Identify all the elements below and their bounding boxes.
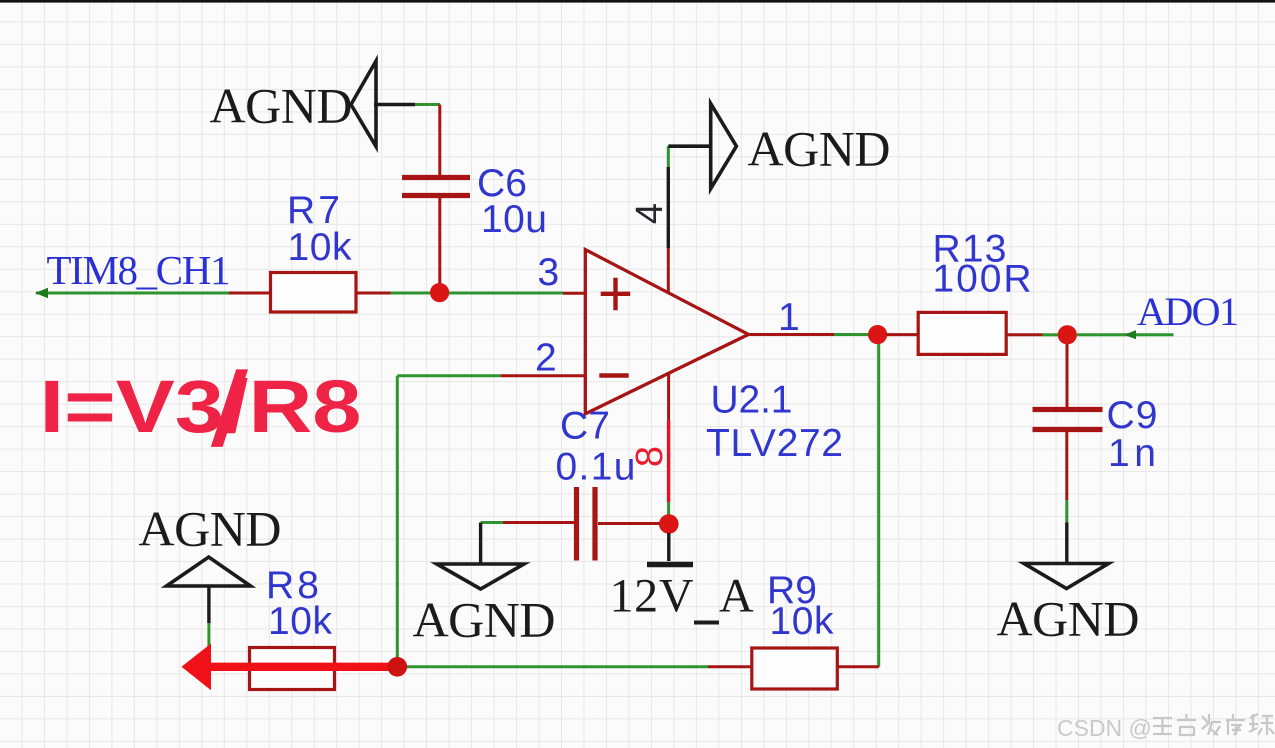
svg-text:10u: 10u	[481, 198, 547, 241]
svg-text:3: 3	[538, 251, 560, 294]
wire into R9	[708, 665, 752, 668]
svg-text:TIM8_CH1: TIM8_CH1	[47, 247, 231, 293]
svg-text:C7: C7	[560, 405, 610, 448]
power port 12V_A	[647, 533, 693, 565]
svg-text:AGND: AGND	[748, 121, 891, 177]
wire C6 to node A	[438, 198, 441, 288]
wire R8	[209, 665, 397, 668]
power port AGND (pin 4)	[668, 104, 736, 189]
watermark CSDN	[1057, 714, 1274, 741]
svg-text:AGND: AGND	[413, 592, 556, 648]
wire R9 to output branch	[837, 665, 879, 668]
junction feedback node	[388, 657, 408, 677]
resistor R8	[250, 648, 335, 690]
capacitor C9	[1033, 410, 1103, 430]
svg-text:TLV272: TLV272	[706, 422, 843, 465]
wire output to R13	[886, 333, 918, 336]
wire feedback bottom	[397, 665, 708, 668]
annotation arrow (current direction)	[182, 644, 398, 691]
svg-text:2: 2	[535, 337, 557, 380]
pin 8 wire	[667, 374, 670, 515]
svg-text:I=V3/R8: I=V3/R8	[40, 365, 362, 448]
svg-text:AGND: AGND	[210, 78, 353, 134]
wire into R7	[229, 292, 271, 295]
capacitor C7	[577, 487, 596, 561]
junction 12V_A node	[659, 514, 679, 534]
pin 3 stub	[563, 292, 585, 295]
svg-text:10k: 10k	[268, 600, 333, 643]
svg-text:C9: C9	[1107, 394, 1158, 437]
wire C7 left to AGND	[481, 523, 574, 565]
pin 1 wire	[749, 333, 870, 336]
wire R7 to node A	[356, 292, 431, 295]
op-amp U2.1	[585, 250, 748, 414]
svg-text:10k: 10k	[770, 600, 835, 643]
wire output down	[877, 344, 880, 667]
wire AGND to C6	[415, 105, 440, 176]
wire TIM8_CH1	[35, 288, 229, 299]
svg-text:AGND: AGND	[997, 591, 1140, 647]
wire node A to pin 3	[449, 292, 563, 295]
capacitor C6	[402, 178, 470, 196]
wire C9 to AGND	[1065, 432, 1068, 564]
junction node A	[430, 283, 449, 302]
resistor R9	[752, 648, 838, 689]
pin 4 wire	[667, 146, 670, 292]
resistor R13	[918, 312, 1006, 354]
svg-text:AGND: AGND	[139, 501, 282, 557]
svg-text:0.1u: 0.1u	[556, 446, 636, 489]
svg-text:10k: 10k	[288, 226, 353, 269]
ground AGND (C7)	[437, 564, 524, 589]
svg-text:CSDN @: CSDN @	[1057, 715, 1152, 741]
svg-text:4: 4	[629, 203, 671, 224]
svg-text:1: 1	[778, 296, 800, 339]
svg-text:100R: 100R	[933, 258, 1032, 301]
pin 2 stub	[501, 374, 585, 377]
ground AGND (C9)	[1024, 564, 1109, 589]
wire ADO1	[1077, 330, 1174, 339]
wire node to C9	[1066, 344, 1069, 407]
svg-text:A: A	[719, 570, 754, 623]
svg-text:ADO1: ADO1	[1137, 289, 1239, 334]
power port AGND (top left)	[351, 61, 415, 147]
wire R13 to node ADO1	[1006, 333, 1058, 336]
resistor R7	[271, 273, 357, 313]
power port AGND (R8)	[167, 557, 251, 586]
junction ADO1 node	[1058, 325, 1077, 344]
wire C7 right to node	[598, 522, 660, 525]
svg-text:U2.1: U2.1	[711, 379, 793, 422]
svg-text:12V: 12V	[610, 570, 694, 623]
wire AGND to R8	[207, 586, 210, 667]
junction output node	[868, 325, 887, 344]
wire pin2 to feedback node	[397, 376, 500, 667]
